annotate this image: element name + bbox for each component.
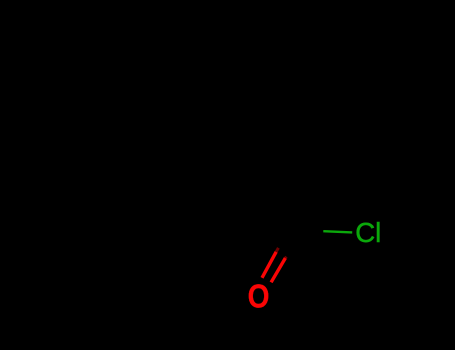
ring bond C5-C6 xyxy=(95,107,112,176)
C=O double bond line 2 black half xyxy=(285,228,296,258)
C-Cl bond green half xyxy=(323,231,352,232)
bridge bond C8-C1 xyxy=(247,38,284,153)
svg-text:Cl: Cl xyxy=(355,217,381,248)
C=O line 2 dark blend tip xyxy=(285,257,286,258)
C=O line 1 dark blend tip xyxy=(276,248,278,252)
C-Cl bond black half xyxy=(284,230,323,232)
C=O double bond line 1 red half xyxy=(262,252,276,278)
svg-text:O: O xyxy=(248,279,270,316)
ring bond C7-C2 xyxy=(165,209,228,212)
ring bond C4-C5 xyxy=(95,62,122,107)
ring bond C2-C1 xyxy=(228,153,284,209)
ring bond C2-C3 xyxy=(207,150,228,209)
C=O double bond line 1 black half xyxy=(276,230,288,252)
ring bond C6-C7 xyxy=(112,176,165,212)
bond C1 to carbonyl carbon xyxy=(283,153,285,229)
C=O double bond line 2 red half xyxy=(271,258,285,282)
ring bond C3-C4 xyxy=(122,62,207,150)
bridge bond C3-C8 apex xyxy=(207,38,247,150)
